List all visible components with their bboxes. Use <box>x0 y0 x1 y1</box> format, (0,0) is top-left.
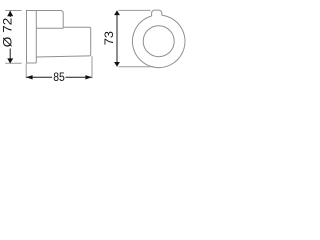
svg-text:85: 85 <box>53 70 65 84</box>
svg-text:Ø 72: Ø 72 <box>1 17 15 47</box>
svg-text:73: 73 <box>104 31 116 45</box>
